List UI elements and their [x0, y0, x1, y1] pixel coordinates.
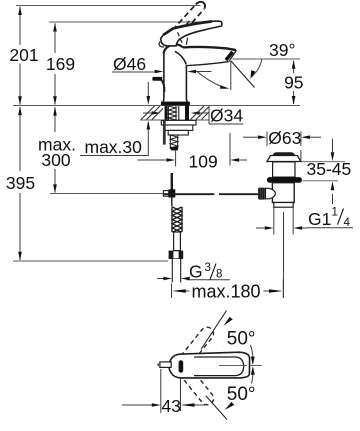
svg-text:max.30: max.30	[85, 137, 143, 157]
svg-text:8: 8	[216, 269, 222, 281]
svg-text:50°: 50°	[227, 329, 256, 350]
svg-text:300: 300	[41, 150, 70, 170]
svg-text:35-45: 35-45	[307, 159, 352, 179]
svg-text:G1: G1	[308, 209, 331, 229]
svg-text:39°: 39°	[269, 40, 295, 60]
svg-text:109: 109	[189, 152, 218, 172]
svg-text:95: 95	[284, 73, 303, 93]
svg-text:Ø46: Ø46	[113, 54, 146, 74]
svg-text:201: 201	[9, 45, 38, 65]
svg-text:Ø63: Ø63	[268, 128, 301, 148]
svg-text:1: 1	[332, 207, 338, 219]
svg-text:4: 4	[344, 217, 351, 229]
svg-text:max.180: max.180	[192, 281, 261, 301]
svg-text:3: 3	[205, 262, 211, 274]
svg-text:169: 169	[46, 54, 75, 74]
svg-text:50°: 50°	[227, 384, 256, 405]
svg-text:43: 43	[162, 396, 181, 416]
svg-text:Ø34: Ø34	[210, 106, 243, 126]
svg-text:395: 395	[6, 173, 35, 193]
svg-text:G: G	[189, 262, 203, 282]
